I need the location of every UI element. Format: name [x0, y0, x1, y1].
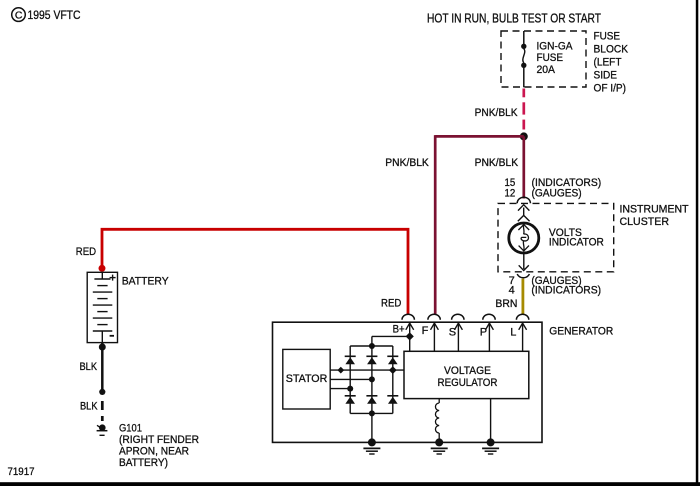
svg-text:PNK/BLK: PNK/BLK	[475, 107, 519, 119]
diode D3	[387, 356, 398, 364]
label FUSE BLOCK (LEFT SIDE OF I/P)	[594, 30, 629, 94]
terminal P arrow	[486, 322, 494, 351]
svg-text:IGN-GA: IGN-GA	[537, 41, 574, 53]
coil field winding	[435, 399, 439, 443]
connector arc below instrument cluster	[517, 274, 529, 278]
ground rectifier	[363, 438, 380, 454]
svg-text:12: 12	[505, 188, 516, 200]
terminal F arrow	[431, 322, 439, 351]
terminal L arrow	[519, 322, 527, 351]
connector arc terminal S	[452, 314, 464, 320]
wire B+ feed from rectifier	[372, 335, 410, 337]
down arrow inside cluster	[519, 254, 529, 271]
node phase 1 diamond left	[337, 367, 344, 374]
svg-text:OF I/P): OF I/P)	[594, 82, 627, 94]
svg-text:STATOR: STATOR	[286, 373, 328, 385]
stator box	[283, 349, 330, 409]
svg-text:1995 VFTC: 1995 VFTC	[28, 8, 81, 22]
terminal B+ arrow	[406, 322, 414, 351]
svg-text:(RIGHT FENDER: (RIGHT FENDER	[119, 434, 199, 446]
terminal S arrow	[455, 322, 463, 351]
svg-text:C: C	[15, 10, 23, 22]
svg-text:RED: RED	[76, 246, 96, 258]
svg-text:REGULATOR: REGULATOR	[438, 377, 498, 389]
node battery negative	[99, 344, 106, 351]
diode D5	[366, 396, 377, 404]
diode D6	[387, 396, 398, 404]
connector arc terminal F	[428, 314, 440, 319]
label INSTRUMENT CLUSTER	[620, 204, 689, 228]
node phase 1 diamond right	[389, 366, 397, 374]
node phase 3 junction	[347, 386, 353, 392]
svg-text:(INDICATORS): (INDICATORS)	[531, 285, 601, 297]
svg-text:FUSE: FUSE	[537, 52, 564, 64]
node BLK splice	[99, 389, 105, 395]
svg-text:FUSE: FUSE	[594, 30, 621, 42]
svg-text:20A: 20A	[537, 64, 556, 76]
svg-text:BRN: BRN	[495, 298, 517, 310]
diode D2	[366, 356, 377, 364]
connector arc terminal B+	[402, 314, 414, 320]
indicator lamp VOLTS INDICATOR	[509, 223, 539, 253]
svg-text:PNK/BLK: PNK/BLK	[475, 157, 519, 169]
rectifier left column	[349, 346, 351, 413]
label VOLTAGE REGULATOR	[438, 365, 498, 389]
svg-text:L: L	[510, 326, 516, 338]
wire regulator ground	[490, 399, 492, 443]
wire stator phase 3	[330, 388, 350, 390]
connector arc terminal L	[516, 314, 528, 320]
voltage regulator box	[404, 351, 529, 398]
rectifier middle column	[371, 336, 373, 442]
svg-text:CLUSTER: CLUSTER	[620, 216, 670, 228]
fuse block dashed box	[501, 31, 586, 87]
rectifier top bus	[350, 345, 393, 347]
svg-text:(LEFT: (LEFT	[594, 56, 622, 68]
svg-text:B+: B+	[393, 323, 405, 335]
node phase 2 junction	[369, 376, 375, 382]
svg-text:PNK/BLK: PNK/BLK	[385, 157, 429, 169]
wire BRN	[522, 279, 525, 315]
up arrow inside cluster	[518, 205, 530, 222]
svg-text:SIDE: SIDE	[594, 69, 618, 81]
node top bus junction	[369, 343, 375, 349]
rectifier bottom bus	[350, 412, 393, 414]
node bottom bus junction	[369, 410, 375, 416]
svg-text:(GAUGES): (GAUGES)	[532, 188, 582, 200]
fuse F IGN-GA 20A	[521, 31, 526, 87]
svg-text:BATTERY): BATTERY)	[119, 457, 168, 469]
node B+ diamond	[406, 332, 414, 340]
svg-text:INSTRUMENT: INSTRUMENT	[620, 204, 689, 216]
instrument cluster dashed box	[498, 203, 614, 271]
diode D1	[345, 356, 356, 364]
svg-text:INDICATOR: INDICATOR	[549, 237, 604, 249]
label G101 (RIGHT FENDER APRON, NEAR BATTERY)	[119, 422, 199, 469]
wire RED from battery to generator	[102, 229, 408, 314]
bottom border bar	[0, 482, 700, 486]
wire BLK dashed	[101, 401, 104, 421]
copyright text	[12, 8, 81, 22]
ground regulator	[482, 438, 499, 454]
svg-text:BATTERY: BATTERY	[122, 275, 170, 287]
label VOLTS INDICATOR	[549, 227, 604, 249]
svg-text:BLK: BLK	[80, 361, 98, 373]
connector arc into instrument cluster	[517, 197, 530, 203]
svg-text:RED: RED	[381, 298, 401, 310]
svg-text:F: F	[422, 325, 429, 337]
battery	[87, 272, 117, 342]
svg-text:G101: G101	[119, 422, 142, 434]
wire PNK/BLK vertical to generator F terminal	[434, 135, 437, 315]
svg-text:71917: 71917	[8, 466, 35, 478]
right border line	[696, 0, 699, 486]
svg-text:BLK: BLK	[80, 401, 98, 413]
node battery positive	[99, 265, 106, 272]
svg-text:HOT IN RUN, BULB TEST OR START: HOT IN RUN, BULB TEST OR START	[427, 12, 601, 26]
svg-text:APRON, NEAR: APRON, NEAR	[119, 446, 189, 458]
svg-text:BLOCK: BLOCK	[594, 43, 629, 55]
wire stator phase 2	[330, 378, 372, 380]
svg-text:GENERATOR: GENERATOR	[549, 326, 613, 338]
node junction splice	[520, 132, 528, 140]
rectifier right column	[392, 346, 394, 413]
svg-text:P: P	[480, 326, 487, 338]
ground field coil	[431, 438, 448, 454]
svg-text:4: 4	[509, 285, 515, 297]
wire PNK/BLK horizontal to F	[435, 135, 524, 138]
label IGN-GA FUSE 20A	[537, 41, 574, 77]
svg-text:VOLTAGE: VOLTAGE	[444, 365, 491, 377]
ground G101	[97, 424, 108, 435]
wire PNK/BLK vertical to instrument cluster	[522, 136, 525, 198]
connector arc terminal P	[483, 314, 495, 320]
wire stator phase 1	[330, 369, 404, 371]
generator box	[273, 322, 543, 442]
diode D4	[345, 396, 356, 404]
svg-text:S: S	[449, 326, 456, 338]
wire BLK solid	[101, 343, 104, 390]
wire PNK/BLK dashed from fuse	[522, 89, 525, 130]
